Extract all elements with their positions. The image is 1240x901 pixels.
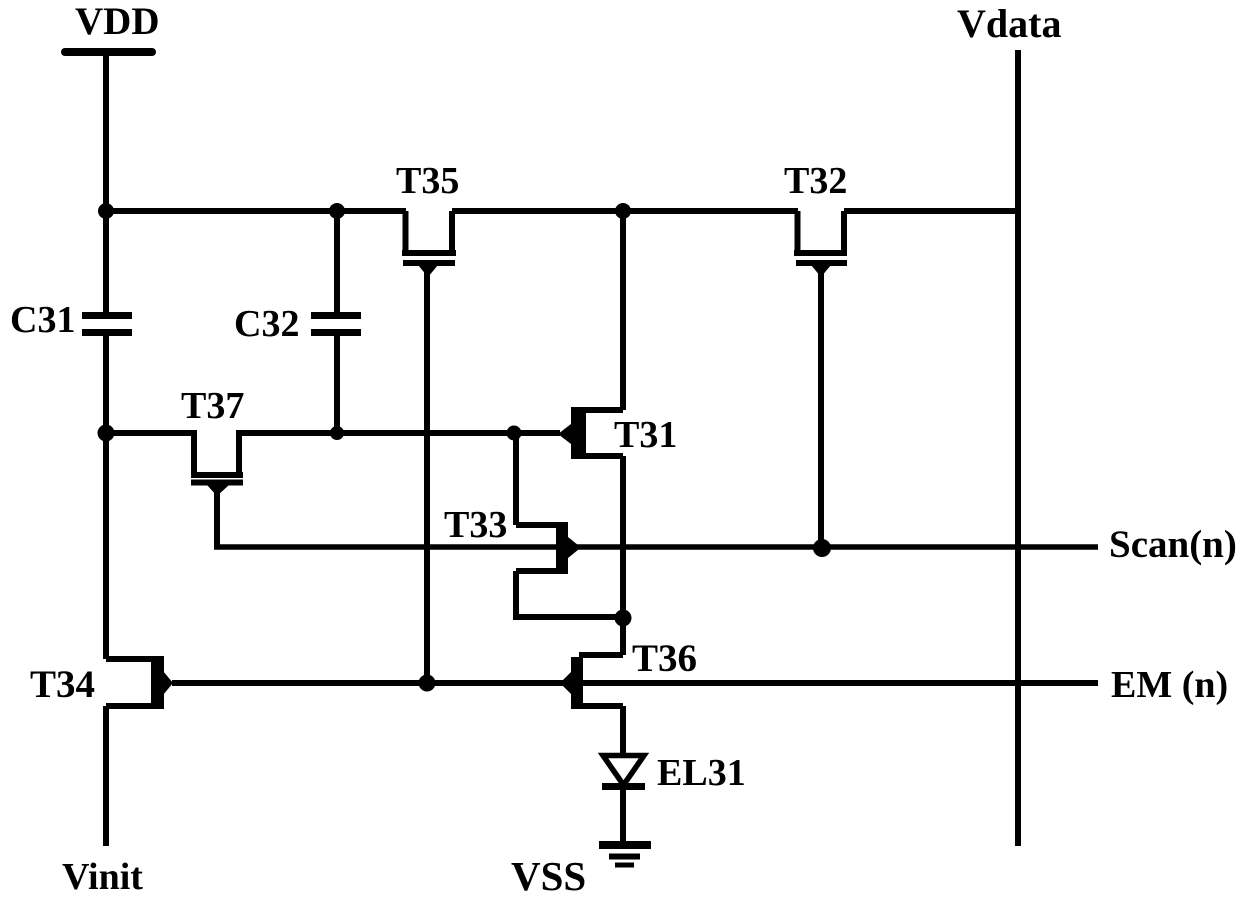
wire C31 bottom lead xyxy=(103,336,109,433)
wire T34 top lead up to second rail xyxy=(103,433,109,659)
wire T31 source down to node xyxy=(620,456,626,618)
node T35 gate EM junction xyxy=(419,675,436,692)
wire T33 bottom lead down to node xyxy=(513,571,625,617)
label T32 xyxy=(784,160,847,202)
svg-text:T35: T35 xyxy=(396,160,459,202)
node T31 gate junction xyxy=(507,426,522,441)
label T34 xyxy=(30,663,95,706)
wire T33 top lead up to second rail xyxy=(513,433,519,525)
svg-text:T31: T31 xyxy=(614,414,677,456)
wire T35 gate to EM line xyxy=(424,266,430,683)
svg-text:C32: C32 xyxy=(234,303,299,345)
label Scan(n) xyxy=(1109,523,1237,566)
svg-text:Scan(n): Scan(n) xyxy=(1109,523,1237,566)
label C32 xyxy=(234,303,299,345)
transistor T36 xyxy=(560,655,623,709)
svg-text:T34: T34 xyxy=(30,663,95,706)
wire top rail middle segment xyxy=(452,208,798,214)
node second rail left junction xyxy=(98,425,115,442)
svg-text:C31: C31 xyxy=(10,299,75,341)
wire second rail right segment xyxy=(236,430,560,436)
wire C32 bottom lead xyxy=(334,336,340,433)
node T31 drain junction xyxy=(615,203,631,219)
svg-text:T37: T37 xyxy=(181,385,244,427)
node C32 top junction xyxy=(329,203,345,219)
svg-text:Vdata: Vdata xyxy=(957,1,1061,46)
wire second rail left segment xyxy=(103,430,197,436)
wire top rail right segment xyxy=(844,208,1018,214)
wire C32 top lead xyxy=(334,208,340,312)
transistor T35 xyxy=(402,211,456,277)
label Vdata xyxy=(957,1,1061,46)
transistor T33 xyxy=(516,522,581,574)
wire T36 bottom lead down to diode xyxy=(620,706,626,755)
transistor T32 xyxy=(794,211,847,277)
label T37 xyxy=(181,385,244,427)
label T33 xyxy=(444,504,507,546)
wire diode cathode to ground xyxy=(620,789,626,845)
svg-text:T32: T32 xyxy=(784,160,847,202)
transistor T31 xyxy=(558,407,623,459)
transistor T37 xyxy=(191,433,243,496)
label Vinit xyxy=(62,856,143,898)
node VDD-C31 junction xyxy=(98,203,114,219)
diode EL31 xyxy=(602,756,645,787)
wire T34 bottom lead down to Vinit xyxy=(103,706,109,846)
wire T31 drain up to top rail xyxy=(620,211,626,410)
capacitor C31 xyxy=(82,312,132,336)
label EL31 xyxy=(657,752,746,794)
node T32 gate Scan junction xyxy=(813,539,831,557)
svg-text:EL31: EL31 xyxy=(657,752,746,794)
svg-text:T36: T36 xyxy=(632,637,697,680)
svg-text:VDD: VDD xyxy=(75,0,160,43)
svg-text:VSS: VSS xyxy=(511,853,586,899)
power symbol VDD bar xyxy=(61,48,156,56)
ground symbol VSS xyxy=(599,845,651,865)
svg-text:T33: T33 xyxy=(444,504,507,546)
label EM (n) xyxy=(1111,664,1228,706)
label T35 xyxy=(396,160,459,202)
wire Scan line xyxy=(214,544,1098,550)
label T36 xyxy=(632,637,697,680)
wire T36 top lead up to node xyxy=(620,618,626,655)
wire T37 gate down to Scan line xyxy=(214,486,220,547)
label T31 xyxy=(614,414,677,456)
label C31 xyxy=(10,299,75,341)
svg-text:EM (n): EM (n) xyxy=(1111,664,1228,706)
wire VDD stem / C31 top lead xyxy=(103,55,109,312)
wire EM line xyxy=(172,680,1098,686)
transistor T34 xyxy=(106,656,173,709)
label VSS xyxy=(511,853,586,899)
capacitor C32 xyxy=(311,312,361,336)
wire Vdata vertical line xyxy=(1015,50,1021,846)
wire T32 gate to Scan line xyxy=(818,266,824,548)
node T36 drain junction xyxy=(615,610,632,627)
wire top rail left segment xyxy=(103,208,406,214)
svg-text:Vinit: Vinit xyxy=(62,856,143,898)
node C32 bottom junction xyxy=(330,426,344,440)
label VDD xyxy=(75,0,160,43)
